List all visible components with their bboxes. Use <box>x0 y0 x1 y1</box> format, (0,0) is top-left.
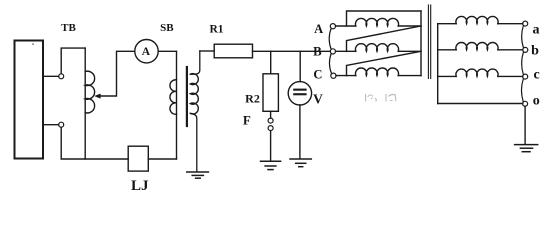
svg-text:R2: R2 <box>245 91 260 105</box>
transformer primary winding (left, 3 bumps bulging left) <box>176 51 178 159</box>
transformer secondary winding (right, 4 bumps bulging right) <box>190 51 200 74</box>
ground (F branch) <box>261 160 281 162</box>
svg-text:LJ: LJ <box>131 178 149 194</box>
terminal circle A <box>330 24 335 29</box>
wire circle2 down and right along bottom bus to LJ <box>61 127 128 159</box>
terminal circle (TB bottom plug) <box>59 122 64 127</box>
svg-text:V: V <box>313 92 323 107</box>
svg-text:R1: R1 <box>209 23 223 35</box>
wire box to terminal circle 1 <box>44 75 59 77</box>
terminal circle F lower <box>268 126 273 131</box>
svg-text:A: A <box>142 46 151 58</box>
wire A to phase coil 1 <box>336 25 356 27</box>
terminal circle a <box>523 21 528 26</box>
arc bus c to o <box>521 79 523 102</box>
ground (voltmeter) <box>290 158 311 160</box>
delta diagonal 1 <box>347 26 422 51</box>
svg-text:TB: TB <box>61 22 76 34</box>
arc bus B to C <box>329 53 331 73</box>
wire circle1 up and right to TB winding top <box>61 48 85 74</box>
wire B to phase coil 2 <box>336 50 356 52</box>
svg-text:a: a <box>533 22 540 37</box>
wire down to R2 <box>270 51 272 74</box>
terminal circle (TB top plug) <box>59 74 64 79</box>
phase coil 1 (A) <box>355 18 398 26</box>
wire o to ground <box>524 106 526 144</box>
terminal circle c <box>523 74 528 79</box>
LV bank left bus <box>437 24 439 104</box>
ground (transformer secondary) <box>187 171 209 173</box>
arc bus a to b <box>522 26 524 49</box>
LV coil b <box>438 49 457 51</box>
resistor R2 <box>263 74 278 112</box>
three-phase core (double bars) <box>427 5 429 79</box>
wire C to phase coil 3 <box>336 75 356 77</box>
relay box LJ <box>128 146 148 171</box>
LV coil c <box>438 75 457 77</box>
ground (neutral o) <box>515 144 538 146</box>
wire voltmeter to ground <box>299 105 301 159</box>
phase coil 2 (B) <box>355 44 398 52</box>
riser A to top link <box>347 11 422 26</box>
svg-text:B: B <box>313 44 322 58</box>
svg-text:C: C <box>313 67 322 81</box>
terminal circle b <box>523 47 528 52</box>
faint watermark fragments <box>366 94 396 101</box>
ammeter SB circle <box>135 40 158 63</box>
terminal circle B <box>330 49 335 54</box>
terminal circle C <box>331 73 336 78</box>
svg-text:o: o <box>533 94 540 109</box>
main bus R1 to terminal B <box>253 50 331 52</box>
arc bus b to c <box>522 52 524 75</box>
HV bus right vertical <box>420 11 422 76</box>
phase coil 3 (C) <box>355 68 398 76</box>
TB wiper arrow (tip at winding) shaft and riser to ammeter <box>98 51 135 96</box>
wire secondary top to R1 <box>200 50 214 52</box>
wire ammeter to transformer primary top <box>158 50 176 52</box>
svg-text:b: b <box>531 44 539 59</box>
transformer core <box>186 67 188 126</box>
LV neutral row o <box>438 103 523 105</box>
resistor R1 <box>214 44 252 58</box>
wire LJ to transformer primary bottom <box>148 158 176 160</box>
LV coil a <box>438 23 457 25</box>
supply box (left rectangle) <box>15 41 44 159</box>
svg-text:SB: SB <box>160 22 174 34</box>
svg-text:F: F <box>243 113 251 128</box>
svg-text:c: c <box>533 68 539 83</box>
wire plug F to ground <box>270 131 272 161</box>
svg-text:A: A <box>314 22 323 36</box>
autotransformer TB winding (spine + 3 right bumps) <box>84 48 86 159</box>
wire box to terminal circle 2 <box>44 124 59 126</box>
delta diagonal 2 <box>347 51 422 75</box>
wire down to voltmeter <box>299 51 301 81</box>
arc bus A to B <box>329 28 331 49</box>
terminal circle F upper <box>268 118 273 123</box>
voltmeter V circle <box>288 82 311 105</box>
wire R2 to plug F <box>270 111 272 118</box>
terminal circle o <box>523 101 528 106</box>
